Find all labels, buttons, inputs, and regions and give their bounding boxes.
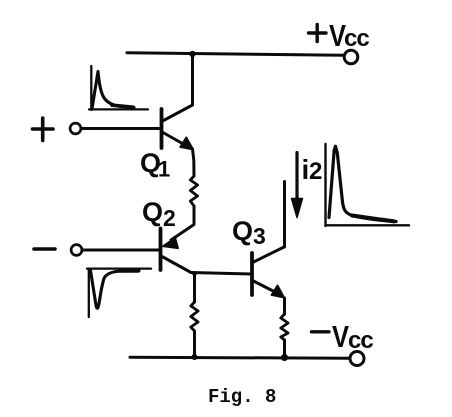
svg-text:V: V (332, 319, 349, 354)
svg-text:cc: cc (348, 327, 373, 354)
label − input (34, 247, 55, 251)
waveform inset negative spike (87, 269, 151, 318)
svg-text:3: 3 (253, 223, 266, 249)
node junction R2 top (192, 271, 197, 276)
wire Q2 collector to Q3 base (191, 273, 251, 275)
resistor R1 (190, 176, 197, 206)
node junction R3 bottom (281, 354, 288, 361)
wire − input to Q2 base (83, 249, 159, 252)
label -Vcc (312, 319, 374, 354)
label Q2 (142, 197, 176, 231)
waveform inset positive spike (89, 66, 148, 110)
wire bottom -Vcc rail (130, 356, 350, 360)
resistor R2 (191, 274, 198, 356)
wire Q3 collector (283, 182, 286, 248)
terminal + input (70, 123, 81, 134)
resistor R3 (281, 314, 288, 340)
svg-text:Fig. 8: Fig. 8 (208, 386, 276, 408)
label + input (33, 118, 54, 141)
wire R1 to Q2 emitter (171, 206, 194, 240)
svg-text:Q: Q (232, 216, 253, 246)
label i2 (302, 154, 323, 185)
waveform inset i2 spike (326, 144, 410, 226)
node junction R2 bottom (192, 354, 198, 360)
wire Q3 emitter to R3 (283, 298, 286, 314)
label Q1 (140, 148, 170, 182)
svg-text:2: 2 (309, 158, 322, 185)
arrow i2 (292, 153, 303, 218)
svg-text:Q: Q (142, 197, 163, 227)
label +Vcc (309, 25, 327, 42)
wire R3 to -Vcc rail (283, 340, 286, 357)
terminal +Vcc (344, 50, 358, 64)
transistor Q2 (161, 229, 192, 273)
wire + input to Q1 base (82, 127, 160, 130)
wire Q1 collector (164, 55, 193, 121)
node junction Q1 collector on rail (189, 51, 195, 57)
label Q3 (232, 216, 266, 249)
svg-text:2: 2 (163, 205, 176, 231)
svg-text:cc: cc (344, 25, 369, 52)
svg-text:1: 1 (158, 157, 170, 182)
wire top +Vcc rail (127, 53, 343, 55)
transistor Q1 (162, 109, 194, 150)
wire Q1 emitter to R1 (193, 149, 195, 176)
transistor Q3 (252, 247, 284, 298)
terminal − input (71, 245, 82, 256)
terminal -Vcc (350, 352, 364, 366)
